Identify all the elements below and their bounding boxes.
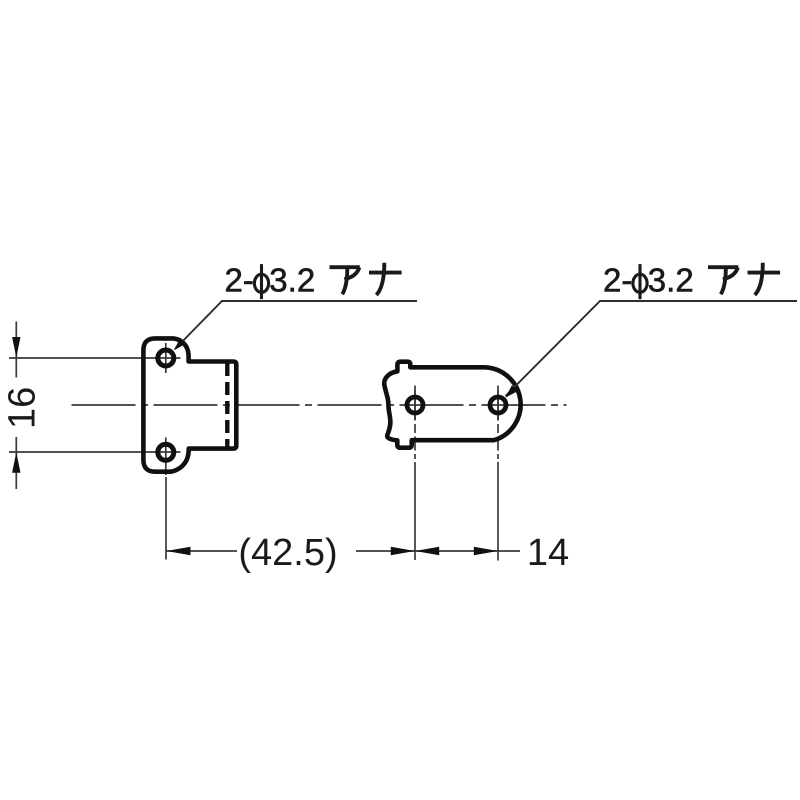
svg-text:2-: 2- [225,262,254,299]
svg-text:3.2: 3.2 [648,262,694,299]
svg-text:(42.5): (42.5) [238,532,337,574]
svg-text:2-: 2- [603,262,632,299]
svg-text:16: 16 [2,387,44,429]
svg-text:3.2: 3.2 [269,262,315,299]
svg-text:14: 14 [527,532,569,574]
